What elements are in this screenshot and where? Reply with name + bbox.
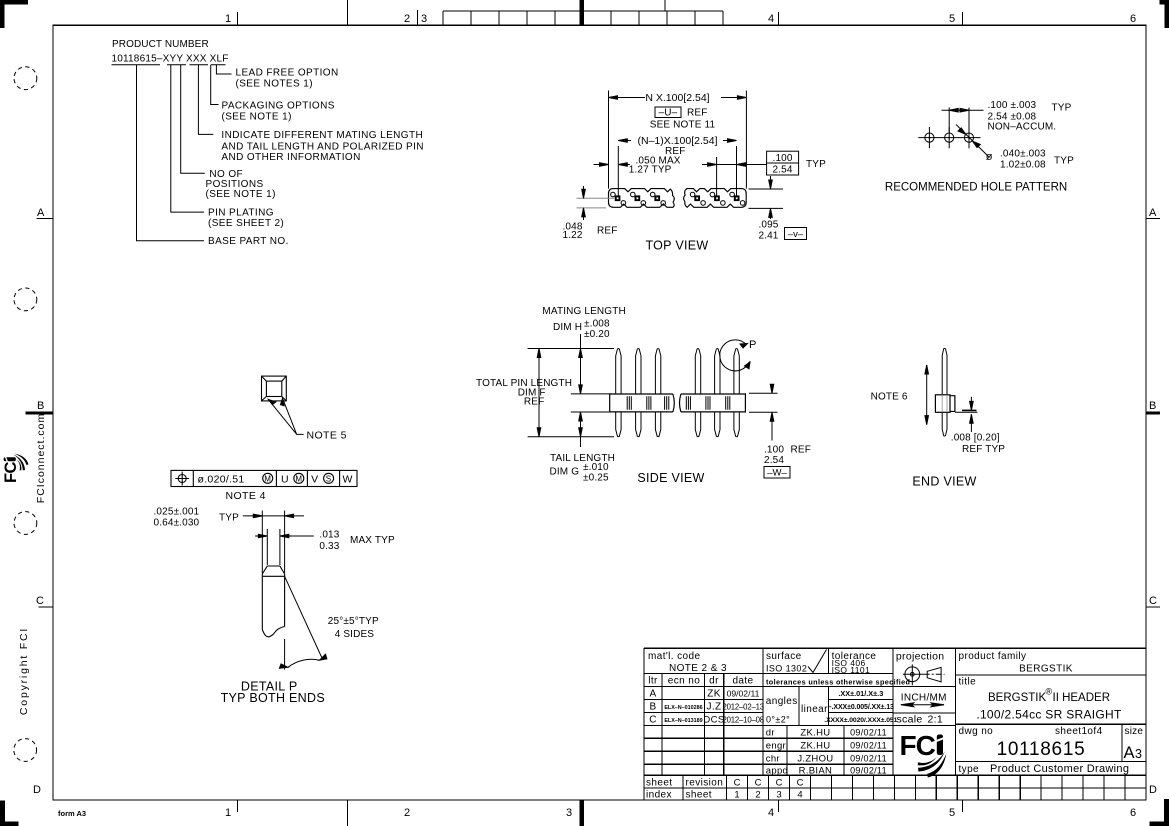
side view body cell lines: [627, 396, 730, 410]
svg-text:tolerances unless otherwise: tolerances unless otherwise specified: [766, 678, 910, 687]
detail p inner ext lines: [267, 529, 280, 565]
svg-text:4: 4: [797, 790, 802, 801]
note5 corner chamfer lines: [262, 376, 287, 401]
title block vertical lines: [661, 673, 663, 775]
svg-text:4: 4: [768, 807, 774, 819]
svg-text:TOP VIEW: TOP VIEW: [645, 239, 708, 253]
detail p angle construction: [279, 576, 327, 669]
svg-text:2012–02–13: 2012–02–13: [723, 702, 764, 711]
FCI logo small (left margin): [2, 454, 29, 483]
svg-text:PACKAGING OPTIONS: PACKAGING OPTIONS: [222, 100, 335, 111]
svg-text:.XXXX±.0020/.XXX±.051: .XXXX±.0020/.XXX±.051: [824, 717, 897, 724]
svg-text:B: B: [649, 702, 656, 713]
svg-text:V: V: [311, 473, 318, 485]
svg-text:TYP: TYP: [219, 512, 239, 523]
dim G vertical: [580, 412, 582, 447]
surface checkmark symbol: [808, 650, 827, 673]
strip outline left part: [609, 189, 675, 208]
svg-text:W: W: [342, 473, 352, 485]
detail p pin outline: [262, 566, 284, 637]
detail p bottom break: [262, 627, 284, 637]
corner mark top-left: [0, 0, 28, 28]
svg-text:–W–: –W–: [767, 468, 787, 479]
svg-text:INDICATE DIFFERENT MATING L: INDICATE DIFFERENT MATING LENGTH: [221, 130, 423, 141]
svg-text:DIM H: DIM H: [553, 322, 582, 333]
dim H vertical: [580, 334, 582, 394]
svg-text:3: 3: [566, 807, 572, 819]
svg-text:size: size: [1125, 726, 1144, 737]
svg-text:2.54: 2.54: [764, 455, 784, 466]
svg-text:M: M: [264, 475, 271, 484]
svg-text:2: 2: [755, 790, 760, 801]
detail p width ext lines: [262, 511, 284, 574]
projection symbol: [903, 664, 945, 685]
svg-text:ZK.HU: ZK.HU: [800, 740, 830, 751]
svg-text:dr: dr: [709, 676, 719, 687]
svg-text:BERGSTIK: BERGSTIK: [1019, 664, 1073, 675]
datum box -v-: [785, 228, 807, 240]
svg-text:index: index: [646, 790, 672, 801]
note5 outer square: [262, 376, 287, 401]
svg-text:PIN PLATING: PIN PLATING: [208, 208, 274, 219]
svg-text:3: 3: [776, 790, 781, 801]
svg-text:B: B: [37, 400, 44, 412]
svg-text:BERGSTIK: BERGSTIK: [988, 692, 1046, 704]
svg-text:(SEE SHEET 2): (SEE SHEET 2): [208, 218, 284, 229]
svg-text:NON–ACCUM.: NON–ACCUM.: [988, 121, 1057, 132]
signature rows: [766, 727, 887, 776]
svg-text:appd: appd: [766, 766, 788, 777]
svg-text:0°±2°: 0°±2°: [766, 715, 790, 725]
dim .100 REF right: [749, 384, 778, 440]
svg-text:(SEE NOTE 1): (SEE NOTE 1): [222, 112, 292, 123]
dim N X.100 extension lines: [609, 91, 747, 189]
svg-text:TYP: TYP: [1052, 103, 1072, 114]
svg-text:sheet1of4: sheet1of4: [1055, 726, 1103, 737]
svg-text:–U–: –U–: [659, 107, 678, 118]
svg-text:R.BIAN: R.BIAN: [799, 766, 832, 777]
svg-text:2: 2: [404, 807, 410, 819]
fcf position symbol: [178, 475, 186, 483]
svg-text:.100 ±.003: .100 ±.003: [988, 100, 1037, 111]
svg-text:.100: .100: [773, 153, 793, 164]
svg-text:.040±.003: .040±.003: [1000, 149, 1046, 160]
svg-text:1.27 TYP: 1.27 TYP: [629, 164, 672, 175]
svg-text:PRODUCT NUMBER: PRODUCT NUMBER: [112, 39, 209, 50]
svg-text:M: M: [295, 475, 302, 484]
surface cell: [766, 651, 807, 674]
svg-text:D: D: [1149, 784, 1157, 796]
svg-text:2:1: 2:1: [928, 713, 944, 725]
strip outline right part: [684, 189, 747, 208]
svg-text:LEAD FREE OPTION: LEAD FREE OPTION: [236, 68, 339, 79]
bottom zone ticks: [238, 800, 963, 826]
svg-text:engr: engr: [766, 740, 786, 751]
svg-text:angles: angles: [766, 696, 798, 707]
dim .048 left side: [577, 198, 615, 208]
top view strip body: [609, 189, 747, 208]
top zone ticks: [238, 0, 963, 25]
note5 leaders: [268, 398, 303, 434]
hole pitch dim: [942, 108, 990, 158]
svg-text:.013: .013: [319, 530, 339, 541]
svg-text:09/02/11: 09/02/11: [850, 753, 887, 763]
svg-text:REF: REF: [597, 226, 617, 237]
svg-text:dr: dr: [766, 727, 775, 738]
svg-text:Product Customer Drawing: Product Customer Drawing: [990, 763, 1129, 775]
left zone ticks: [36, 219, 53, 607]
svg-text:dwg no: dwg no: [959, 726, 994, 737]
svg-text:NOTE 5: NOTE 5: [307, 429, 347, 441]
svg-text:ø: ø: [986, 151, 993, 163]
svg-text:09/02/11: 09/02/11: [850, 727, 887, 737]
svg-text:surface: surface: [766, 651, 802, 662]
svg-text:09/02/11: 09/02/11: [850, 740, 887, 750]
end view pin top: [942, 348, 947, 394]
svg-text:D: D: [33, 784, 41, 796]
svg-text:B: B: [1149, 400, 1156, 412]
zone labels left: [33, 207, 45, 796]
bottom centre thick mark: [579, 800, 584, 826]
svg-text:1.02±0.08: 1.02±0.08: [1000, 160, 1046, 171]
zone labels bottom: [225, 807, 1136, 819]
svg-text:1: 1: [225, 807, 231, 819]
svg-text:4: 4: [768, 13, 774, 25]
svg-text:AND OTHER INFORMATION: AND OTHER INFORMATION: [221, 152, 360, 163]
svg-text:A: A: [1124, 744, 1135, 762]
svg-text:AND TAIL LENGTH AND POLARI: AND TAIL LENGTH AND POLARIZED PIN: [221, 141, 424, 152]
svg-text:6: 6: [1130, 807, 1136, 819]
svg-text:.095: .095: [758, 219, 778, 230]
svg-text:1.22: 1.22: [563, 230, 583, 241]
fcf modifier circles: [263, 473, 273, 483]
svg-text:(SEE NOTE 1): (SEE NOTE 1): [206, 189, 276, 200]
svg-text:mat'l. code: mat'l. code: [648, 651, 700, 662]
svg-text:6: 6: [1130, 13, 1136, 25]
dim .050 arrows: [594, 164, 631, 166]
zone labels right: [1149, 207, 1157, 796]
part number underlines: [112, 64, 226, 66]
svg-text:REF TYP: REF TYP: [962, 444, 1005, 455]
svg-text:TYP: TYP: [806, 159, 826, 170]
side ref line pin bottoms: [528, 436, 614, 438]
svg-text:sheet: sheet: [686, 790, 712, 801]
svg-text:ltr: ltr: [648, 676, 658, 687]
svg-text:S: S: [326, 475, 332, 484]
svg-text:±0.25: ±0.25: [583, 473, 609, 484]
side view pins: [616, 349, 740, 437]
hole crosshairs: [918, 127, 980, 148]
svg-text:2.54: 2.54: [773, 165, 793, 176]
svg-text:linear: linear: [801, 704, 828, 715]
svg-text:–v–: –v–: [788, 229, 804, 240]
svg-text:.100: .100: [764, 445, 784, 456]
svg-text:09/02/11: 09/02/11: [727, 688, 760, 698]
svg-text:ELX–N–013189: ELX–N–013189: [664, 718, 702, 724]
svg-text:2012–10–08: 2012–10–08: [723, 715, 764, 724]
svg-text:REF: REF: [687, 107, 707, 118]
corner mark bottom-right: [1150, 799, 1169, 826]
svg-text:U: U: [281, 473, 289, 485]
dim (N-1) extension+line: [618, 146, 736, 196]
svg-text:3: 3: [421, 13, 427, 25]
svg-text:form A3: form A3: [58, 809, 86, 818]
svg-text:–.XXX±0.005/.XX±.13: –.XXX±0.005/.XX±.13: [828, 704, 894, 711]
svg-text:DIM G: DIM G: [550, 466, 580, 477]
svg-text:A: A: [37, 207, 45, 219]
svg-text:C: C: [1149, 595, 1157, 607]
svg-text:2.41: 2.41: [758, 230, 778, 241]
svg-text:FC: FC: [2, 462, 20, 483]
punch hole circles: [14, 67, 37, 762]
fcf box: [171, 470, 357, 486]
datum box -W-: [764, 467, 790, 479]
note6 dim arrow: [926, 365, 928, 425]
svg-text:projection: projection: [896, 650, 945, 662]
end view body: [935, 395, 950, 413]
svg-text:II HEADER: II HEADER: [1053, 692, 1111, 704]
svg-text:±0.20: ±0.20: [584, 329, 610, 340]
svg-text:C: C: [649, 715, 657, 726]
FCI logo big: [900, 730, 947, 778]
svg-text:5: 5: [949, 13, 955, 25]
svg-text:END VIEW: END VIEW: [912, 474, 976, 488]
svg-text:®: ®: [1046, 687, 1053, 697]
svg-text:DCS: DCS: [703, 715, 724, 726]
svg-text:REF: REF: [524, 397, 544, 408]
callout leader lines: [137, 65, 232, 241]
svg-text:.100/2.54cc SR SRAIGHT: .100/2.54cc SR SRAIGHT: [976, 707, 1122, 721]
svg-text:4 SIDES: 4 SIDES: [335, 629, 375, 640]
svg-text:TYP BOTH ENDS: TYP BOTH ENDS: [221, 691, 325, 705]
hole centre dots: [928, 137, 970, 139]
svg-text:sheet: sheet: [646, 778, 672, 789]
svg-text:(SEE NOTES 1): (SEE NOTES 1): [236, 79, 313, 90]
svg-text:scale: scale: [897, 713, 923, 725]
side ref line body top left: [571, 393, 612, 395]
hole circles: [925, 133, 934, 142]
svg-text:2: 2: [404, 13, 410, 25]
end view pin bottom: [942, 412, 947, 436]
corner mark top-right: [1160, 0, 1169, 28]
dim .008: [955, 411, 978, 413]
svg-text:ZK: ZK: [707, 689, 721, 700]
zone labels top: [225, 13, 1136, 25]
svg-text:title: title: [959, 677, 977, 688]
note5 inner square: [266, 381, 281, 396]
svg-text:.008 [0.20]: .008 [0.20]: [951, 433, 1000, 444]
svg-text:RECOMMENDED HOLE PATTERN: RECOMMENDED HOLE PATTERN: [885, 181, 1067, 193]
svg-text:MAX TYP: MAX TYP: [350, 535, 395, 546]
strip pins (black squares): [615, 195, 740, 201]
svg-text:FCIconnect.com: FCIconnect.com: [35, 413, 47, 503]
svg-text:SIDE VIEW: SIDE VIEW: [637, 471, 704, 485]
side ref line pin tops: [528, 348, 614, 350]
title block texts left: [648, 651, 754, 726]
P rotation symbol: [720, 340, 750, 371]
svg-text:C: C: [776, 777, 783, 788]
svg-text:5: 5: [949, 807, 955, 819]
svg-text:10118615–XYY XXX XLF: 10118615–XYY XXX XLF: [112, 54, 229, 65]
svg-text:J.Z: J.Z: [706, 702, 721, 713]
svg-text:INCH/MM: INCH/MM: [901, 692, 947, 703]
svg-text:.025±.001: .025±.001: [154, 507, 200, 518]
svg-text:ø.020/.51: ø.020/.51: [198, 473, 245, 485]
dim F vertical: [538, 349, 540, 437]
dim box .100/2.54: [767, 151, 799, 175]
svg-text:ZK.HU: ZK.HU: [800, 727, 830, 738]
corner mark bottom-left: [0, 801, 19, 826]
svg-text:.XX±.01/.X±.3: .XX±.01/.X±.3: [838, 689, 883, 698]
dim .100 typ lines: [702, 157, 767, 196]
top ruler scale: [443, 11, 723, 25]
svg-text:BASE PART NO.: BASE PART NO.: [208, 236, 289, 247]
svg-text:0.64±.030: 0.64±.030: [154, 518, 200, 529]
svg-text:N X.100[2.54]: N X.100[2.54]: [645, 92, 709, 104]
tolerance cell: [832, 651, 877, 675]
svg-text:ISO 1302: ISO 1302: [766, 664, 807, 674]
dim N X.100 line: [609, 97, 747, 99]
svg-text:C: C: [36, 595, 44, 607]
svg-text:A: A: [1149, 207, 1157, 219]
detail p .025 dim: [243, 515, 304, 517]
svg-text:C: C: [755, 777, 762, 788]
svg-text:09/02/11: 09/02/11: [850, 766, 887, 776]
svg-text:chr: chr: [766, 753, 780, 764]
svg-text:3: 3: [1135, 747, 1142, 761]
svg-text:MATING LENGTH: MATING LENGTH: [542, 306, 625, 317]
svg-text:C: C: [734, 777, 741, 788]
svg-text:1: 1: [225, 13, 231, 25]
svg-text:Copyright FCI: Copyright FCI: [18, 627, 30, 715]
sheet index cells: [748, 775, 1126, 800]
svg-text:product family: product family: [959, 651, 1027, 662]
svg-text:date: date: [732, 676, 753, 687]
svg-text:ecn no: ecn no: [668, 676, 700, 687]
svg-text:P: P: [749, 339, 756, 351]
svg-text:1: 1: [734, 790, 739, 801]
svg-text:NOTE 6: NOTE 6: [871, 391, 908, 402]
title block outer + horizontal lines: [644, 648, 1146, 800]
dim .095 right side: [749, 176, 784, 219]
detail p .013 dim: [255, 535, 314, 537]
svg-text:25°±5°TYP: 25°±5°TYP: [328, 616, 379, 627]
hole dia leader: [956, 125, 990, 158]
svg-text:ELX–N–010286: ELX–N–010286: [664, 705, 702, 711]
svg-text:C: C: [797, 777, 804, 788]
svg-text:A: A: [649, 689, 656, 700]
strip locator circles: [611, 192, 745, 205]
svg-text:revision: revision: [686, 778, 724, 789]
svg-text:SEE NOTE 11: SEE NOTE 11: [650, 119, 716, 130]
svg-text:0.33: 0.33: [319, 541, 339, 552]
svg-text:J.ZHOU: J.ZHOU: [797, 753, 833, 764]
svg-text:NOTE 2 & 3: NOTE 2 & 3: [669, 663, 727, 674]
svg-text:TYP: TYP: [1054, 156, 1074, 167]
svg-text:ISO 1101: ISO 1101: [832, 665, 870, 675]
datum box -U-: [655, 107, 681, 118]
svg-text:REF: REF: [791, 445, 811, 456]
side view body: [610, 394, 746, 412]
side ref line body bottom left: [571, 411, 612, 413]
svg-text:±.010: ±.010: [583, 462, 609, 473]
sheet index labels: [646, 778, 723, 801]
svg-text:NOTE 4: NOTE 4: [226, 490, 266, 502]
svg-text:10118615: 10118615: [997, 739, 1086, 760]
svg-text:±.008: ±.008: [584, 318, 610, 329]
top centre thick mark: [579, 0, 584, 25]
right zone ticks: [1146, 219, 1160, 607]
svg-text:type: type: [959, 764, 980, 775]
